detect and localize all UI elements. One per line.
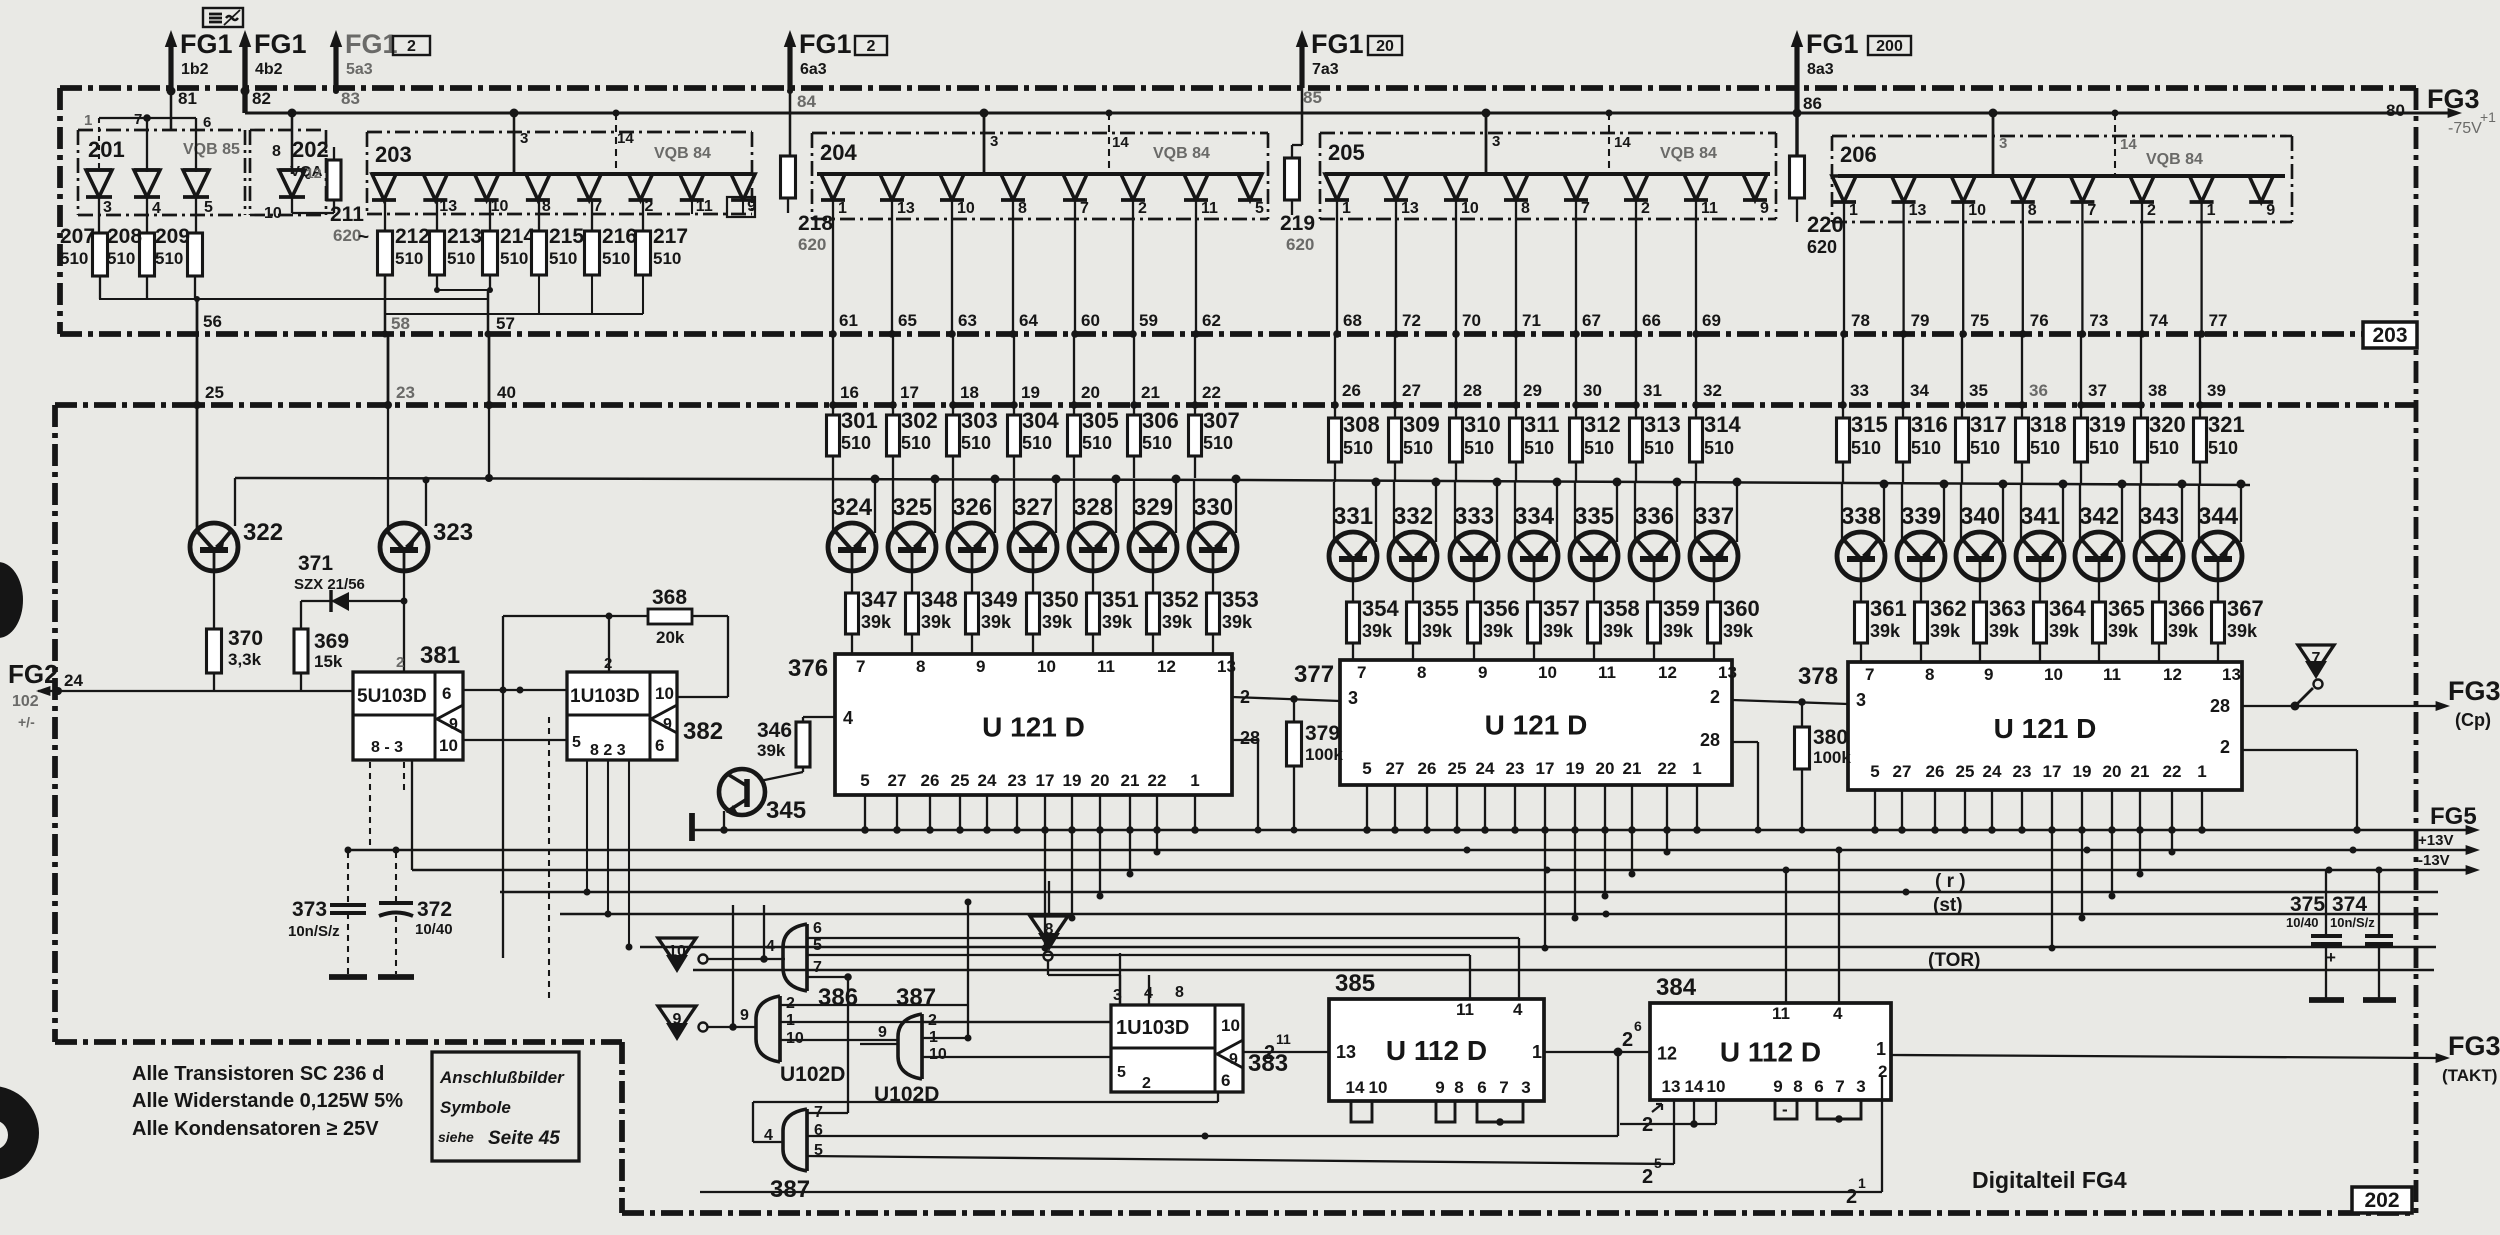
svg-text:510: 510 [602, 249, 630, 268]
svg-text:(Cp): (Cp) [2455, 710, 2491, 730]
svg-text:71: 71 [1522, 311, 1541, 330]
svg-text:5: 5 [572, 734, 581, 751]
svg-text:FG1: FG1 [799, 29, 852, 59]
svg-text:328: 328 [1073, 494, 1113, 521]
svg-text:510: 510 [841, 433, 871, 453]
svg-text:-75V: -75V [2448, 120, 2482, 137]
svg-text:9: 9 [878, 1024, 887, 1041]
svg-text:14: 14 [2120, 136, 2137, 153]
svg-text:13: 13 [1336, 1042, 1356, 1062]
svg-text:6: 6 [1814, 1077, 1823, 1096]
svg-text:36: 36 [2029, 381, 2048, 400]
svg-text:100k: 100k [1305, 745, 1343, 764]
svg-text:72: 72 [1402, 311, 1421, 330]
svg-text:347: 347 [861, 587, 898, 612]
svg-text:(TAKT): (TAKT) [2442, 1066, 2497, 1085]
svg-text:201: 201 [88, 137, 125, 162]
svg-text:303: 303 [961, 408, 998, 433]
svg-text:386: 386 [818, 984, 858, 1011]
svg-text:(TOR): (TOR) [1928, 950, 1980, 971]
svg-text:316: 316 [1911, 412, 1948, 437]
svg-text:510: 510 [901, 433, 931, 453]
svg-text:7: 7 [856, 657, 865, 676]
svg-text:18: 18 [960, 383, 979, 402]
svg-text:338: 338 [1841, 503, 1881, 530]
svg-text:26: 26 [1926, 762, 1945, 781]
svg-text:14: 14 [1346, 1078, 1365, 1097]
svg-text:4: 4 [152, 200, 161, 217]
svg-text:70: 70 [1462, 311, 1481, 330]
svg-text:22: 22 [1202, 383, 1221, 402]
svg-text:327: 327 [1013, 494, 1053, 521]
svg-text:86: 86 [1803, 94, 1822, 113]
svg-text:8: 8 [1018, 200, 1027, 217]
svg-text:13: 13 [439, 198, 457, 215]
svg-text:5: 5 [860, 771, 869, 790]
svg-text:39k: 39k [1870, 621, 1901, 641]
svg-text:6: 6 [1634, 1018, 1642, 1034]
svg-text:20: 20 [1081, 383, 1100, 402]
svg-text:365: 365 [2108, 596, 2145, 621]
svg-text:10: 10 [439, 736, 458, 755]
svg-text:76: 76 [2030, 311, 2049, 330]
svg-text:FG3: FG3 [2448, 1031, 2500, 1061]
svg-text:334: 334 [1514, 503, 1555, 530]
svg-text:12: 12 [1157, 657, 1176, 676]
svg-text:510: 510 [961, 433, 991, 453]
svg-text:2: 2 [1846, 1186, 1857, 1208]
svg-text:7: 7 [2087, 202, 2096, 219]
svg-text:8: 8 [542, 198, 551, 215]
svg-text:381: 381 [420, 642, 460, 669]
svg-text:19: 19 [1021, 383, 1040, 402]
svg-text:11: 11 [1097, 657, 1115, 676]
svg-text:21: 21 [1141, 383, 1160, 402]
svg-text:Alle Kondensatoren ≥ 25V: Alle Kondensatoren ≥ 25V [132, 1118, 379, 1140]
svg-text:39k: 39k [981, 612, 1012, 632]
svg-text:9: 9 [673, 1011, 682, 1028]
svg-text:311: 311 [1524, 412, 1560, 437]
svg-text:21: 21 [1623, 759, 1642, 778]
svg-text:1: 1 [2207, 202, 2216, 219]
svg-text:510: 510 [549, 249, 577, 268]
svg-text:75: 75 [1970, 311, 1989, 330]
svg-text:510: 510 [1584, 438, 1614, 458]
svg-text:39k: 39k [2227, 621, 2258, 641]
svg-text:29: 29 [1523, 381, 1542, 400]
svg-text:510: 510 [395, 249, 423, 268]
svg-text:20: 20 [1091, 771, 1110, 790]
svg-text:23: 23 [1008, 771, 1027, 790]
svg-text:11: 11 [1772, 1004, 1790, 1023]
svg-text:21: 21 [1121, 771, 1140, 790]
svg-text:314: 314 [1704, 412, 1741, 437]
svg-text:363: 363 [1989, 596, 2026, 621]
svg-text:11: 11 [1276, 1031, 1291, 1047]
svg-text:318: 318 [2030, 412, 2067, 437]
svg-text:620: 620 [1286, 235, 1314, 254]
svg-text:22: 22 [2163, 762, 2182, 781]
svg-text:5: 5 [1117, 1064, 1126, 1081]
svg-text:382: 382 [683, 718, 723, 745]
svg-text:9: 9 [1773, 1077, 1782, 1096]
svg-text:9: 9 [1229, 1051, 1238, 1068]
svg-text:21: 21 [2131, 762, 2150, 781]
svg-text:19: 19 [1063, 771, 1082, 790]
svg-text:27: 27 [1402, 381, 1421, 400]
svg-text:1: 1 [1190, 771, 1199, 790]
svg-text:U 121 D: U 121 D [982, 712, 1085, 743]
svg-text:5: 5 [1255, 200, 1264, 217]
svg-text:2: 2 [867, 38, 876, 55]
svg-text:Digitalteil FG4: Digitalteil FG4 [1972, 1167, 2127, 1193]
svg-text:352: 352 [1162, 587, 1199, 612]
svg-text:7: 7 [2312, 650, 2321, 667]
svg-text:301: 301 [841, 408, 878, 433]
svg-text:82: 82 [252, 89, 271, 108]
svg-text:59: 59 [1139, 311, 1158, 330]
svg-text:12: 12 [306, 165, 322, 181]
svg-text:373: 373 [292, 898, 327, 921]
svg-text:27: 27 [888, 771, 907, 790]
svg-text:6: 6 [442, 684, 451, 703]
svg-text:510: 510 [1082, 433, 1112, 453]
svg-text:VQB 84: VQB 84 [654, 145, 711, 162]
svg-text:324: 324 [832, 494, 873, 521]
svg-text:Symbole: Symbole [440, 1098, 511, 1117]
svg-text:39k: 39k [1362, 621, 1393, 641]
svg-text:372: 372 [417, 898, 452, 921]
svg-text:620: 620 [1807, 237, 1837, 257]
svg-text:78: 78 [1851, 311, 1870, 330]
svg-text:9: 9 [1760, 200, 1769, 217]
svg-text:1U103D: 1U103D [570, 686, 640, 707]
svg-text:10n/S/z: 10n/S/z [288, 923, 340, 940]
svg-text:39k: 39k [861, 612, 892, 632]
svg-text:5: 5 [1654, 1155, 1662, 1171]
svg-text:8a3: 8a3 [1807, 61, 1834, 78]
svg-text:Alle Transistoren SC 236 d: Alle Transistoren SC 236 d [132, 1063, 384, 1085]
svg-text:9: 9 [1478, 663, 1487, 682]
svg-text:+1: +1 [2480, 109, 2496, 125]
svg-text:6: 6 [1221, 1071, 1230, 1090]
svg-text:1: 1 [84, 112, 92, 129]
svg-text:26: 26 [1418, 759, 1437, 778]
svg-text:308: 308 [1343, 412, 1380, 437]
svg-text:208: 208 [107, 225, 142, 248]
svg-text:85: 85 [1303, 88, 1322, 107]
svg-text:27: 27 [1386, 759, 1405, 778]
svg-text:321: 321 [2208, 412, 2245, 437]
svg-text:7: 7 [1357, 663, 1366, 682]
svg-text:73: 73 [2089, 311, 2108, 330]
svg-text:37: 37 [2088, 381, 2107, 400]
svg-text:2: 2 [1710, 687, 1720, 707]
svg-text:364: 364 [2049, 596, 2086, 621]
svg-text:32: 32 [1703, 381, 1722, 400]
svg-text:5: 5 [204, 199, 213, 216]
svg-text:374: 374 [2332, 893, 2367, 916]
svg-text:67: 67 [1582, 311, 1601, 330]
svg-text:3,3k: 3,3k [228, 650, 262, 669]
svg-text:1: 1 [1858, 1175, 1866, 1191]
svg-text:379: 379 [1305, 722, 1340, 745]
svg-text:384: 384 [1656, 974, 1697, 1001]
svg-text:10: 10 [1037, 657, 1056, 676]
svg-text:26: 26 [921, 771, 940, 790]
svg-text:313: 313 [1644, 412, 1681, 437]
svg-text:6: 6 [203, 114, 211, 131]
svg-text:-13V: -13V [2418, 852, 2450, 869]
svg-text:16: 16 [840, 383, 859, 402]
svg-text:64: 64 [1019, 311, 1038, 330]
svg-text:8: 8 [916, 657, 925, 676]
svg-text:2: 2 [2147, 202, 2156, 219]
svg-text:217: 217 [653, 225, 688, 248]
svg-text:7: 7 [1499, 1078, 1508, 1097]
svg-text:VQB 84: VQB 84 [2146, 151, 2203, 168]
svg-text:77: 77 [2209, 311, 2228, 330]
svg-text:219: 219 [1280, 212, 1315, 235]
svg-text:323: 323 [433, 519, 473, 546]
svg-text:1b2: 1b2 [181, 61, 209, 78]
svg-text:510: 510 [1851, 438, 1881, 458]
svg-text:220: 220 [1807, 212, 1844, 237]
svg-text:10: 10 [957, 200, 975, 217]
svg-text:Alle Widerstande 0,125W 5%: Alle Widerstande 0,125W 5% [132, 1090, 403, 1112]
svg-text:510: 510 [1403, 438, 1433, 458]
svg-text:1: 1 [838, 200, 847, 217]
svg-text:10: 10 [655, 684, 674, 703]
svg-text:100k: 100k [1813, 748, 1851, 767]
svg-text:358: 358 [1603, 596, 1640, 621]
svg-text:510: 510 [1524, 438, 1554, 458]
svg-text:366: 366 [2168, 596, 2205, 621]
svg-text:9: 9 [1984, 665, 1993, 684]
svg-text:7: 7 [1865, 665, 1874, 684]
svg-text:39k: 39k [2049, 621, 2080, 641]
svg-text:331: 331 [1333, 503, 1373, 530]
svg-text:10: 10 [786, 1030, 804, 1047]
svg-text:39k: 39k [757, 741, 786, 760]
svg-text:57: 57 [496, 314, 515, 333]
svg-text:510: 510 [2030, 438, 2060, 458]
svg-text:10: 10 [668, 943, 686, 960]
svg-text:~: ~ [358, 227, 369, 248]
svg-text:FG1: FG1 [345, 29, 398, 59]
svg-text:1: 1 [786, 1012, 795, 1029]
svg-text:387: 387 [896, 984, 936, 1011]
svg-text:380: 380 [1813, 726, 1848, 749]
svg-text:14: 14 [1112, 134, 1129, 151]
svg-text:13: 13 [1718, 663, 1737, 682]
svg-text:28: 28 [1700, 730, 1720, 750]
svg-text:2: 2 [1622, 1029, 1633, 1051]
svg-text:4: 4 [766, 938, 775, 955]
svg-text:23: 23 [2013, 762, 2032, 781]
svg-text:8: 8 [1045, 921, 1054, 938]
svg-text:337: 337 [1694, 503, 1734, 530]
svg-text:11: 11 [1456, 1000, 1474, 1019]
svg-text:19: 19 [2073, 762, 2092, 781]
svg-text:342: 342 [2079, 503, 2119, 530]
svg-text:10n/S/z: 10n/S/z [2330, 915, 2375, 930]
svg-text:319: 319 [2089, 412, 2126, 437]
svg-text:2: 2 [786, 995, 795, 1012]
svg-text:12: 12 [2163, 665, 2182, 684]
svg-text:510: 510 [1644, 438, 1674, 458]
svg-text:2: 2 [1142, 1075, 1151, 1092]
svg-text:69: 69 [1702, 311, 1721, 330]
svg-text:2: 2 [1642, 1114, 1653, 1136]
svg-text:24: 24 [1983, 762, 2002, 781]
svg-text:40: 40 [497, 383, 516, 402]
svg-text:320: 320 [2149, 412, 2186, 437]
svg-text:39k: 39k [1042, 612, 1073, 632]
svg-text:212: 212 [395, 225, 430, 248]
svg-text:24: 24 [1476, 759, 1495, 778]
svg-text:5: 5 [1362, 759, 1371, 778]
svg-text:FG3: FG3 [2427, 84, 2480, 114]
svg-text:20: 20 [1596, 759, 1615, 778]
svg-text:U 121 D: U 121 D [1485, 710, 1588, 741]
svg-text:3: 3 [1521, 1078, 1530, 1097]
svg-text:8: 8 [2028, 202, 2037, 219]
svg-text:24: 24 [978, 771, 997, 790]
svg-text:200: 200 [1876, 38, 1903, 55]
svg-text:14: 14 [1614, 134, 1631, 151]
svg-text:2: 2 [2220, 737, 2230, 757]
svg-text:23: 23 [1506, 759, 1525, 778]
svg-text:10: 10 [1369, 1078, 1388, 1097]
svg-text:207: 207 [60, 225, 95, 248]
svg-text:FG2: FG2 [8, 659, 59, 689]
svg-text:63: 63 [958, 311, 977, 330]
svg-text:3: 3 [1856, 690, 1866, 710]
svg-text:10: 10 [491, 198, 509, 215]
svg-text:Seite 45: Seite 45 [488, 1128, 560, 1149]
svg-text:10: 10 [929, 1046, 947, 1063]
svg-text:17: 17 [1536, 759, 1555, 778]
svg-text:VQB 84: VQB 84 [1660, 145, 1717, 162]
svg-text:317: 317 [1970, 412, 2007, 437]
svg-text:+13V: +13V [2418, 832, 2453, 849]
svg-text:U102D: U102D [780, 1063, 845, 1086]
svg-text:385: 385 [1335, 970, 1375, 997]
svg-text:349: 349 [981, 587, 1018, 612]
svg-text:377: 377 [1294, 661, 1334, 688]
svg-text:6: 6 [1477, 1078, 1486, 1097]
svg-text:19: 19 [1566, 759, 1585, 778]
svg-text:3: 3 [1999, 135, 2007, 152]
svg-text:510: 510 [653, 249, 681, 268]
svg-text:510: 510 [1970, 438, 2000, 458]
svg-text:510: 510 [1142, 433, 1172, 453]
svg-text:371: 371 [298, 552, 333, 575]
svg-text:39k: 39k [1723, 621, 1754, 641]
svg-text:39k: 39k [1422, 621, 1453, 641]
svg-text:VQB 85: VQB 85 [183, 141, 240, 158]
svg-text:17: 17 [900, 383, 919, 402]
svg-text:204: 204 [820, 140, 857, 165]
svg-text:510: 510 [1911, 438, 1941, 458]
svg-text:2: 2 [1642, 1166, 1653, 1188]
svg-text:312: 312 [1584, 412, 1621, 437]
svg-text:7: 7 [1080, 200, 1089, 217]
svg-text:353: 353 [1222, 587, 1259, 612]
svg-text:7a3: 7a3 [1312, 61, 1339, 78]
svg-text:102: 102 [12, 693, 39, 710]
svg-text:9: 9 [740, 1007, 749, 1024]
svg-text:28: 28 [1463, 381, 1482, 400]
svg-text:9: 9 [449, 716, 458, 733]
svg-text:510: 510 [107, 249, 135, 268]
svg-text:2: 2 [1264, 1042, 1275, 1064]
svg-text:13: 13 [1909, 202, 1927, 219]
svg-text:345: 345 [766, 797, 806, 824]
svg-text:FG5: FG5 [2430, 803, 2477, 830]
svg-text:13: 13 [1401, 200, 1419, 217]
svg-text:4: 4 [843, 708, 853, 728]
svg-text:357: 357 [1543, 596, 1580, 621]
svg-text:351: 351 [1102, 587, 1139, 612]
svg-text:359: 359 [1663, 596, 1700, 621]
svg-text:510: 510 [155, 249, 183, 268]
svg-text:38: 38 [2148, 381, 2167, 400]
svg-text:5: 5 [1870, 762, 1879, 781]
svg-text:346: 346 [757, 719, 792, 742]
svg-text:367: 367 [2227, 596, 2264, 621]
svg-text:61: 61 [839, 311, 858, 330]
svg-text:20: 20 [2103, 762, 2122, 781]
svg-text:3: 3 [103, 199, 112, 216]
svg-text:39k: 39k [1162, 612, 1193, 632]
svg-text:10: 10 [1968, 202, 1986, 219]
svg-text:Anschlußbilder: Anschlußbilder [439, 1068, 565, 1087]
svg-text:510: 510 [1704, 438, 1734, 458]
svg-text:329: 329 [1133, 494, 1173, 521]
svg-text:2: 2 [1641, 200, 1650, 217]
svg-text:209: 209 [155, 225, 190, 248]
svg-text:343: 343 [2139, 503, 2179, 530]
svg-text:13: 13 [1662, 1077, 1681, 1096]
svg-text:322: 322 [243, 519, 283, 546]
svg-text:305: 305 [1082, 408, 1119, 433]
svg-text:510: 510 [1022, 433, 1052, 453]
svg-text:361: 361 [1870, 596, 1907, 621]
svg-text:17: 17 [2043, 762, 2062, 781]
svg-text:2: 2 [645, 198, 654, 215]
svg-text:8: 8 [1454, 1078, 1463, 1097]
svg-text:333: 333 [1454, 503, 1494, 530]
svg-text:368: 368 [652, 586, 687, 609]
svg-text:68: 68 [1343, 311, 1362, 330]
svg-text:218: 218 [798, 212, 833, 235]
svg-text:8: 8 [1793, 1077, 1802, 1096]
svg-text:302: 302 [901, 408, 938, 433]
svg-text:4: 4 [1513, 1000, 1523, 1019]
svg-text:7: 7 [134, 111, 142, 128]
svg-text:39k: 39k [1989, 621, 2020, 641]
svg-text:344: 344 [2198, 503, 2239, 530]
svg-text:5U103D: 5U103D [357, 686, 427, 707]
svg-text:510: 510 [60, 249, 88, 268]
svg-text:(st): (st) [1933, 895, 1963, 916]
svg-text:3: 3 [1492, 133, 1500, 150]
svg-text:5a3: 5a3 [346, 61, 373, 78]
svg-text:60: 60 [1081, 311, 1100, 330]
svg-text:13: 13 [2222, 665, 2241, 684]
